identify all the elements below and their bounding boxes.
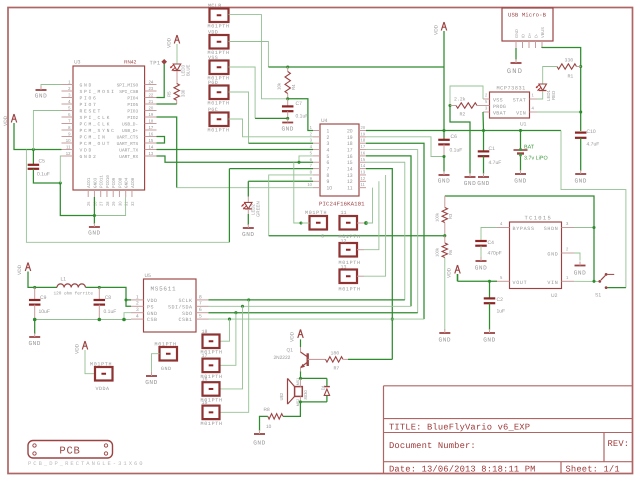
wire VDDA xyxy=(85,350,95,374)
wire divider top xyxy=(445,196,594,281)
svg-text:REV:: REV: xyxy=(608,439,630,449)
svg-text:GND: GND xyxy=(35,93,47,100)
svg-text:14: 14 xyxy=(347,167,353,173)
svg-text:SHDN: SHDN xyxy=(544,226,559,232)
svg-text:PIO7: PIO7 xyxy=(80,102,98,108)
usb connector USB Micro-B xyxy=(502,8,553,48)
svg-text:VOUT: VOUT xyxy=(513,280,528,286)
svg-text:19: 19 xyxy=(361,131,366,136)
svg-text:120 ohm ferrite: 120 ohm ferrite xyxy=(54,290,94,296)
wire pad11 to U4 pin11 xyxy=(357,188,373,225)
gnd symbol under C6 xyxy=(438,157,450,185)
svg-text:GND2: GND2 xyxy=(80,154,98,160)
svg-text:PIO2: PIO2 xyxy=(127,115,138,121)
svg-text:23: 23 xyxy=(149,86,154,91)
svg-text:14: 14 xyxy=(361,163,366,168)
capacitor C8 xyxy=(94,287,117,319)
wire buzzer net to R7 xyxy=(391,319,393,359)
wire VSS loop xyxy=(450,86,483,106)
junction C8 top xyxy=(98,286,101,289)
svg-text:GND: GND xyxy=(574,178,586,185)
junction C2 xyxy=(488,280,491,283)
svg-text:VIN: VIN xyxy=(516,110,526,116)
svg-text:SDO: SDO xyxy=(182,311,193,317)
wire VDD rail xyxy=(268,66,444,68)
svg-text:7: 7 xyxy=(327,167,330,173)
svg-text:UART_TX: UART_TX xyxy=(119,148,138,153)
svg-text:8030: 8030 xyxy=(303,390,308,400)
svg-text:GND: GND xyxy=(281,126,293,133)
junction C5-GND2 xyxy=(59,181,62,184)
svg-text:470pF: 470pF xyxy=(488,251,502,257)
svg-text:10k: 10k xyxy=(277,82,282,90)
wire VDD trunk down xyxy=(443,31,445,131)
capacitor C1 xyxy=(478,131,502,167)
svg-text:4.7uF: 4.7uF xyxy=(489,160,502,166)
wire LED1 to STAT xyxy=(537,91,543,99)
capacitor C10 xyxy=(575,129,599,148)
svg-text:GND: GND xyxy=(242,231,254,238)
wire pad6 stub xyxy=(301,222,310,224)
pad M01PTH VDDA xyxy=(90,361,113,392)
junction ground rail xyxy=(93,214,96,217)
pad M01PTH 16 xyxy=(201,377,223,404)
resistor R1 330 xyxy=(557,58,581,80)
svg-text:VDD: VDD xyxy=(17,264,23,275)
svg-text:11: 11 xyxy=(341,210,347,216)
svg-text:GND: GND xyxy=(475,265,487,272)
svg-text:VDD: VDD xyxy=(434,24,440,35)
svg-text:GREEN: GREEN xyxy=(256,201,261,217)
svg-text:18: 18 xyxy=(149,118,154,123)
junction U5 VDD pin xyxy=(124,298,127,301)
svg-text:PCM_IN: PCM_IN xyxy=(80,135,107,141)
wire SDO rail xyxy=(209,311,418,314)
svg-text:BAT: BAT xyxy=(524,145,535,151)
pressure sensor U5 MS5611 xyxy=(131,273,209,332)
svg-text:SDI/SDA: SDI/SDA xyxy=(168,304,193,310)
svg-text:GND: GND xyxy=(145,379,157,386)
svg-text:1: 1 xyxy=(327,128,330,134)
wire U4 pin20 to battery rail xyxy=(366,130,444,132)
svg-text:18: 18 xyxy=(361,138,366,143)
wire SDA rail xyxy=(209,305,412,308)
svg-text:SPI_CSB: SPI_CSB xyxy=(119,89,138,95)
svg-text:C1: C1 xyxy=(489,146,496,152)
wire SCLK rail xyxy=(209,298,405,301)
wire to pad15 xyxy=(220,300,249,412)
svg-text:M01PTH: M01PTH xyxy=(208,128,230,134)
svg-text:C5: C5 xyxy=(39,159,46,165)
pad M01PTH 15 xyxy=(201,400,223,427)
gnd symbol U2 xyxy=(574,253,586,277)
pad M01PTH 17 xyxy=(201,353,223,380)
wire PGC pad to U4 pin2 xyxy=(229,119,314,137)
wire ground rail under U3 xyxy=(60,183,125,216)
svg-text:UART_RX: UART_RX xyxy=(119,155,138,160)
svg-text:24: 24 xyxy=(149,79,154,84)
svg-text:SPI_MISO: SPI_MISO xyxy=(117,82,139,88)
svg-text:0.1uF: 0.1uF xyxy=(296,114,309,120)
wire GND2 pin12 down xyxy=(60,156,61,183)
svg-text:U4: U4 xyxy=(321,118,328,124)
svg-text:15: 15 xyxy=(149,138,154,143)
svg-text:12: 12 xyxy=(66,151,71,156)
gnd symbol divider xyxy=(439,258,451,344)
speaker U$2 8030 xyxy=(279,378,308,406)
svg-text:13: 13 xyxy=(149,151,154,156)
svg-text:25: 25 xyxy=(86,201,91,206)
bluetooth module U3 RN42 xyxy=(62,60,157,207)
svg-text:20: 20 xyxy=(347,128,353,134)
wire VBAT down xyxy=(482,112,485,131)
title text xyxy=(389,423,530,433)
svg-text:GND: GND xyxy=(161,366,172,372)
svg-text:R6: R6 xyxy=(448,249,453,255)
svg-text:6: 6 xyxy=(199,307,202,313)
wire VOUT to VDD xyxy=(458,280,498,282)
gnd symbol filter xyxy=(28,320,40,348)
svg-text:19: 19 xyxy=(149,112,154,117)
svg-text:VDD: VDD xyxy=(447,267,453,278)
resistor R7 180 xyxy=(326,351,349,372)
svg-text:BYPASS: BYPASS xyxy=(513,226,535,232)
diode D1 xyxy=(321,378,330,402)
svg-text:U5: U5 xyxy=(145,273,152,279)
svg-text:14: 14 xyxy=(149,144,154,149)
svg-text:12: 12 xyxy=(347,179,353,185)
wire VDD to LED3 xyxy=(176,44,178,64)
resistor R3 100k xyxy=(435,196,454,236)
wire VSS to gnd xyxy=(450,106,470,175)
gnd symbol VSS xyxy=(464,173,476,187)
junction divider mid xyxy=(443,234,446,237)
power VDD arrow VOUT xyxy=(447,265,461,281)
svg-text:UART_CTS: UART_CTS xyxy=(117,134,139,140)
svg-text:SCLK: SCLK xyxy=(178,298,192,304)
svg-text:GND: GND xyxy=(80,83,94,89)
svg-text:PIO6: PIO6 xyxy=(80,96,98,102)
svg-text:8: 8 xyxy=(327,173,330,179)
junction VDD battery rail C6 xyxy=(442,129,445,132)
pad M01PTH VSS xyxy=(208,55,230,82)
capacitor C7 xyxy=(282,99,308,120)
svg-text:3: 3 xyxy=(136,307,139,313)
svg-text:4.7uF: 4.7uF xyxy=(587,142,600,148)
svg-text:USB_D-: USB_D- xyxy=(122,121,138,127)
svg-text:U$2: U$2 xyxy=(279,392,284,400)
svg-text:GND: GND xyxy=(253,440,265,447)
svg-text:330: 330 xyxy=(181,89,186,97)
svg-text:C10: C10 xyxy=(587,129,596,135)
svg-text:TC1015: TC1015 xyxy=(525,215,553,222)
svg-text:U3: U3 xyxy=(74,60,81,66)
svg-text:GND: GND xyxy=(483,337,495,344)
junction VDD-C5 xyxy=(32,148,35,151)
wire MCLR to U4 pin1 xyxy=(288,99,313,131)
svg-text:5: 5 xyxy=(199,314,202,320)
wire to pad17 xyxy=(220,313,236,366)
svg-text:PGC: PGC xyxy=(208,107,218,113)
svg-text:8: 8 xyxy=(199,294,202,300)
svg-text:VDD: VDD xyxy=(3,115,9,126)
svg-text:U2: U2 xyxy=(551,293,558,299)
wire long net left side xyxy=(26,150,229,243)
resistor R6 100k xyxy=(435,236,454,258)
svg-text:15: 15 xyxy=(361,157,366,162)
svg-text:VDDA: VDDA xyxy=(96,386,110,392)
svg-text:29: 29 xyxy=(111,201,116,206)
wire pad12 to U4 pin12 xyxy=(357,181,379,249)
gnd symbol at U3 pin1 xyxy=(35,85,62,100)
svg-text:13: 13 xyxy=(341,265,347,271)
svg-text:PCB_DP_RECTANGLE-31X60: PCB_DP_RECTANGLE-31X60 xyxy=(28,460,145,467)
svg-text:R5: R5 xyxy=(167,91,172,97)
svg-text:27: 27 xyxy=(99,201,104,206)
svg-text:PCM_SYNC: PCM_SYNC xyxy=(80,128,116,134)
svg-text:VIN: VIN xyxy=(547,280,558,286)
svg-text:330: 330 xyxy=(565,58,574,64)
svg-text:RESET: RESET xyxy=(80,109,103,115)
svg-text:17: 17 xyxy=(361,144,366,149)
wire U4 pin19 VSS to C6 gnd xyxy=(366,137,444,157)
svg-text:100k: 100k xyxy=(435,247,440,257)
svg-text:1: 1 xyxy=(136,294,139,300)
svg-text:3: 3 xyxy=(327,141,330,147)
gnd symbol C2 xyxy=(483,303,495,343)
wire speaker top rail xyxy=(300,377,327,379)
wire VDD to Q1 collector xyxy=(300,339,302,352)
svg-text:GND: GND xyxy=(477,180,489,187)
svg-text:VSS: VSS xyxy=(208,55,218,61)
switch S1 xyxy=(595,273,614,299)
svg-text:9: 9 xyxy=(327,179,330,185)
svg-text:15: 15 xyxy=(347,160,353,166)
svg-text:R8: R8 xyxy=(264,407,270,413)
svg-text:10: 10 xyxy=(266,424,272,430)
svg-text:Sheet: 1/1: Sheet: 1/1 xyxy=(566,464,620,474)
svg-text:2: 2 xyxy=(327,135,330,141)
svg-text:32: 32 xyxy=(130,201,135,206)
svg-text:6: 6 xyxy=(321,234,324,240)
gnd symbol under C7 xyxy=(281,119,293,133)
svg-text:15: 15 xyxy=(202,400,208,406)
wire to pad16 xyxy=(220,306,243,389)
svg-text:PIO10: PIO10 xyxy=(106,175,111,188)
gnd symbol under U3 xyxy=(88,216,100,237)
svg-text:M01PTH: M01PTH xyxy=(208,101,230,107)
svg-text:CSB: CSB xyxy=(147,317,158,323)
wire SHDN to trunk xyxy=(574,226,596,229)
svg-text:C2: C2 xyxy=(497,297,504,303)
svg-text:5: 5 xyxy=(327,154,330,160)
svg-text:17: 17 xyxy=(149,125,154,130)
resistor R8 10 xyxy=(264,402,301,430)
wire U3 UART_RX to U4 pin6 xyxy=(157,156,314,162)
svg-text:PIC24F16KA101: PIC24F16KA101 xyxy=(319,201,365,208)
svg-text:0.1uF: 0.1uF xyxy=(104,309,117,315)
svg-text:17: 17 xyxy=(202,353,208,359)
svg-text:MS5611: MS5611 xyxy=(151,286,177,293)
capacitor C9 xyxy=(29,287,50,319)
wire VDD to U3 pin11 xyxy=(14,123,62,150)
svg-text:D-: D- xyxy=(534,33,539,38)
svg-text:18: 18 xyxy=(347,141,353,147)
wire U3 PIO2 to U4 pin10 xyxy=(157,117,314,188)
wire U4 pin14 buzzer drive xyxy=(366,169,392,320)
junction pad6 xyxy=(299,221,302,224)
svg-text:20: 20 xyxy=(149,105,154,110)
wire VDD branch to RESET pin5 xyxy=(33,111,61,150)
wire battery to switch S1 xyxy=(561,131,626,288)
date text xyxy=(389,464,536,474)
wire U4 pin17 to SDO rail xyxy=(366,150,418,313)
power VDD arrow Q1 xyxy=(290,329,304,342)
svg-text:R4: R4 xyxy=(291,84,296,90)
svg-text:R2: R2 xyxy=(460,112,466,118)
power VDD arrow left xyxy=(3,114,17,126)
junction R2 VSS xyxy=(448,104,451,107)
wire U4 pin8 to sense xyxy=(269,175,313,236)
svg-text:GND: GND xyxy=(88,230,100,237)
pad M01PTH 6 xyxy=(305,210,327,240)
svg-text:GND: GND xyxy=(28,340,40,347)
svg-text:CSB1: CSB1 xyxy=(178,317,192,323)
svg-text:13: 13 xyxy=(347,173,353,179)
resistor R5 330 xyxy=(167,71,186,100)
pad M01PTH MCLR xyxy=(208,3,230,30)
wire battery rail xyxy=(444,129,561,132)
svg-text:VDD: VDD xyxy=(147,298,158,304)
wire VIN xyxy=(537,110,582,113)
svg-text:PGD: PGD xyxy=(208,80,218,86)
junction C9 top xyxy=(33,286,36,289)
svg-text:RED: RED xyxy=(551,91,556,100)
wire to pad18 xyxy=(220,319,230,341)
svg-text:C9: C9 xyxy=(40,295,47,301)
svg-text:PS: PS xyxy=(147,304,154,310)
svg-text:PIO4: PIO4 xyxy=(127,95,138,101)
svg-text:18: 18 xyxy=(202,329,208,335)
wire speaker bottom rail xyxy=(299,400,327,403)
svg-text:180: 180 xyxy=(331,351,340,357)
wire CSB1 rail xyxy=(209,318,425,321)
regulator U2 TC1015 xyxy=(497,215,574,300)
svg-text:S1: S1 xyxy=(595,293,601,299)
svg-text:GND: GND xyxy=(514,29,519,38)
svg-text:M01PTH: M01PTH xyxy=(201,421,223,427)
svg-text:Date: 13/06/2013 8:18:11 PM: Date: 13/06/2013 8:18:11 PM xyxy=(389,464,536,474)
svg-text:BLUE: BLUE xyxy=(186,64,191,76)
svg-text:GND: GND xyxy=(514,178,526,185)
svg-text:4: 4 xyxy=(136,314,139,320)
junction R1 xyxy=(579,65,582,68)
svg-text:0.1uF: 0.1uF xyxy=(450,148,463,154)
wire U4 pin7 long xyxy=(229,169,313,243)
svg-text:VDD: VDD xyxy=(80,148,94,154)
svg-text:TITLE: BlueFlyVario v6_EXP: TITLE: BlueFlyVario v6_EXP xyxy=(389,423,530,433)
wire U3 UART_TX to U4 pin4 xyxy=(157,149,314,151)
microcontroller U4 PIC24F16KA101 xyxy=(307,118,366,208)
svg-text:R7: R7 xyxy=(334,366,340,372)
svg-text:1uF: 1uF xyxy=(497,309,506,315)
svg-text:12: 12 xyxy=(341,238,347,244)
svg-text:GND3: GND3 xyxy=(93,177,98,188)
svg-text:SPI_MOSI: SPI_MOSI xyxy=(80,89,116,95)
svg-text:VSS: VSS xyxy=(493,97,503,103)
svg-text:R3: R3 xyxy=(448,213,453,219)
capacitor C4 bypass xyxy=(475,228,501,257)
svg-text:VDD: VDD xyxy=(75,343,81,354)
junction C7 ground xyxy=(286,117,289,120)
svg-text:TP1: TP1 xyxy=(150,60,161,67)
svg-text:16: 16 xyxy=(347,154,353,160)
svg-text:2N2222: 2N2222 xyxy=(274,355,291,361)
gnd symbol R8 xyxy=(253,416,268,446)
svg-text:2: 2 xyxy=(136,301,139,307)
svg-text:Document Number:: Document Number: xyxy=(389,441,476,451)
wire R1 to LED1 xyxy=(543,67,557,85)
svg-text:PIO5: PIO5 xyxy=(127,102,138,108)
svg-text:L1: L1 xyxy=(61,277,67,283)
svg-text:10uF: 10uF xyxy=(39,309,50,315)
power VDD arrow top xyxy=(434,22,447,35)
junction R4 top xyxy=(286,65,289,68)
gnd symbol C10 xyxy=(574,138,586,185)
svg-text:21: 21 xyxy=(149,99,154,104)
svg-text:AIO0: AIO0 xyxy=(131,177,136,188)
svg-text:7: 7 xyxy=(199,301,202,307)
gnd symbol C4 xyxy=(475,246,487,272)
wire U4 pin15 to SCLK rail xyxy=(366,162,405,300)
PCB outline part U$3 xyxy=(28,441,113,459)
svg-text:RN42: RN42 xyxy=(124,60,137,66)
wire PGD pad to U4 pin3 xyxy=(229,92,314,143)
svg-text:3.7v LiPO: 3.7v LiPO xyxy=(524,156,548,162)
gnd symbol under LED2 xyxy=(242,209,254,238)
svg-text:PCB: PCB xyxy=(59,446,80,458)
svg-text:GND: GND xyxy=(507,68,523,76)
wire battery sense to divider xyxy=(269,235,445,237)
svg-text:C6: C6 xyxy=(451,134,458,140)
wire VSS pad to gnd node xyxy=(229,67,288,118)
svg-text:17: 17 xyxy=(347,147,353,153)
wire R5 to U3 pin21 xyxy=(157,100,177,104)
junction R4 bottom MCLR xyxy=(286,97,289,100)
svg-text:D+: D+ xyxy=(527,32,532,38)
wire ground rail filter xyxy=(33,318,131,322)
svg-text:USB Micro-B: USB Micro-B xyxy=(508,12,547,19)
svg-text:30: 30 xyxy=(117,201,122,206)
led LED3 BLUE xyxy=(170,64,190,76)
svg-text:PIO9: PIO9 xyxy=(112,177,117,188)
svg-text:MS1: MS1 xyxy=(296,378,300,385)
svg-text:11: 11 xyxy=(66,144,71,149)
svg-text:VBAT: VBAT xyxy=(493,110,506,116)
sheet text xyxy=(566,464,620,474)
wire U4 pin9 to LED2 xyxy=(248,181,313,202)
junction buzzer net xyxy=(391,318,394,321)
svg-text:C8: C8 xyxy=(105,295,112,301)
wire R7 to U4 pin14 net xyxy=(348,358,392,360)
svg-text:12: 12 xyxy=(361,176,366,181)
battery BAT 3.7v LiPO xyxy=(514,131,548,162)
pad M01PTH GND xyxy=(155,342,178,372)
wire U4 pin5 tap xyxy=(297,156,313,164)
svg-text:UART_RTS: UART_RTS xyxy=(117,141,139,147)
svg-text:MCP73831: MCP73831 xyxy=(497,86,526,92)
document number label xyxy=(389,441,476,451)
